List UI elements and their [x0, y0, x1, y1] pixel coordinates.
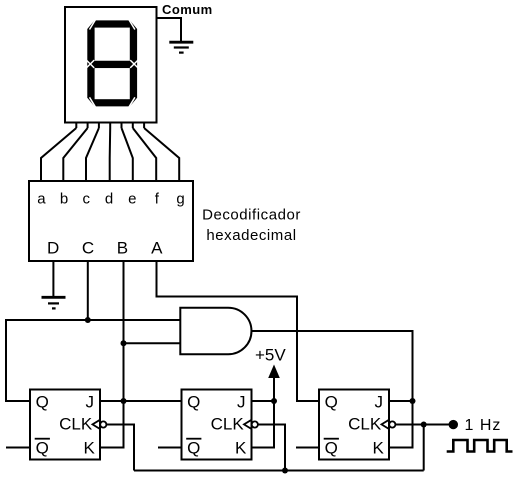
svg-text:Q: Q: [187, 439, 200, 458]
wire B down (to J1/K1): [100, 261, 124, 448]
wire fan b: [63, 128, 87, 181]
svg-text:B: B: [117, 239, 128, 258]
svg-text:b: b: [60, 191, 68, 208]
wire CLK3 to 1Hz terminal: [395, 424, 449, 426]
svg-text:Decodificador: Decodificador: [202, 207, 301, 224]
node AND-out / J3 dot: [410, 398, 416, 404]
display pins: [76, 123, 144, 129]
svg-text:Comum: Comum: [162, 2, 213, 17]
svg-text:C: C: [82, 239, 94, 258]
wire C-line / AND input1 / Q of FF1: [6, 320, 180, 401]
svg-text:Q: Q: [36, 439, 49, 458]
+5V supply arrow: [268, 365, 280, 379]
node B to AND input2 dot: [121, 340, 127, 346]
svg-text:A: A: [151, 239, 163, 258]
FF1 clock bubble: [100, 421, 106, 427]
svg-text:Q: Q: [187, 393, 200, 412]
wire A down and across to Q3: [157, 261, 320, 401]
svg-text:hexadecimal: hexadecimal: [206, 227, 296, 244]
svg-text:c: c: [83, 191, 91, 208]
seven-segment digit 8: [86, 19, 138, 109]
wire J2: [252, 400, 275, 402]
svg-text:d: d: [105, 191, 113, 208]
wire Q2-bar stub: [158, 447, 182, 449]
wire fan d: [109, 128, 112, 181]
decoder U1 box: [29, 181, 193, 261]
wire bus down: [423, 425, 425, 471]
wire D to ground: [52, 261, 54, 296]
FF2 clock chevron: [244, 420, 252, 429]
svg-text:CLK: CLK: [348, 415, 382, 434]
wire Q1-bar stub: [6, 447, 30, 449]
svg-text:J: J: [375, 393, 384, 412]
svg-text:K: K: [372, 439, 384, 458]
svg-text:K: K: [235, 439, 247, 458]
node CLK2 bus dot: [282, 468, 288, 474]
svg-text:+5V: +5V: [255, 346, 286, 365]
wire Q2 to J1: [100, 400, 182, 402]
FF2 clock bubble: [252, 421, 258, 427]
wire J3: [389, 400, 413, 402]
FF3 clock bubble: [389, 421, 395, 427]
1 Hz terminal dot: [449, 420, 458, 429]
svg-text:a: a: [37, 191, 46, 208]
wire fan c: [86, 128, 99, 181]
node C junction dot: [85, 317, 91, 323]
wire clock bottom bus: [134, 470, 424, 472]
flip-flop FF1 box: [30, 390, 100, 460]
wire fan f: [133, 128, 156, 181]
wire CLK1 to bus: [106, 425, 134, 471]
AND gate U2: [180, 308, 251, 355]
wire AND output to J3/K3: [252, 331, 413, 448]
svg-text:J: J: [237, 393, 246, 412]
wire fan e: [122, 128, 133, 181]
FF1 clock chevron: [93, 420, 101, 429]
svg-text:K: K: [83, 439, 95, 458]
clock waveform symbol: [447, 440, 513, 452]
svg-text:g: g: [176, 191, 184, 208]
svg-text:e: e: [128, 191, 136, 208]
ground (common): [169, 42, 193, 52]
wire fan g: [144, 128, 179, 181]
flip-flop FF2 box: [182, 390, 252, 460]
node B / Q2-J1 dot: [121, 398, 127, 404]
node CLK3 bus dot: [421, 422, 427, 428]
ground (decoder D): [42, 297, 66, 308]
flip-flop FF3 box: [319, 390, 389, 460]
wire CLK2 to bus: [258, 425, 285, 471]
svg-text:Q: Q: [325, 439, 338, 458]
wire AND input2: [124, 342, 181, 344]
svg-text:1 Hz: 1 Hz: [465, 417, 502, 434]
node +5V / J2 dot: [271, 398, 277, 404]
svg-text:Q: Q: [325, 393, 338, 412]
wire fan a: [41, 128, 76, 181]
svg-text:J: J: [86, 393, 95, 412]
wire Q3-bar stub: [296, 447, 319, 449]
wire C down: [87, 261, 89, 320]
seven-segment display DS1 (box): [65, 7, 157, 123]
svg-text:Q: Q: [36, 393, 49, 412]
FF3 clock chevron: [382, 420, 390, 429]
svg-text:CLK: CLK: [59, 415, 93, 434]
svg-text:D: D: [47, 239, 59, 258]
svg-text:CLK: CLK: [211, 415, 245, 434]
wire display common to ground: [157, 18, 182, 42]
